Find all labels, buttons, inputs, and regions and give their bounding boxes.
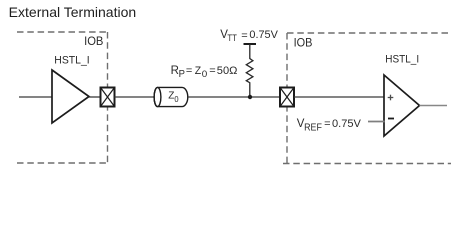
minus input marker	[388, 118, 394, 120]
wire: driver output to left pad	[89, 96, 101, 98]
svg-text:HSTL_I: HSTL_I	[54, 54, 89, 66]
IOB region left (dashed boundary)	[17, 32, 108, 163]
driver buffer (left triangle)	[52, 70, 89, 123]
wire: transmission line to right pad	[188, 96, 280, 98]
svg-text:IOB: IOB	[294, 35, 313, 49]
resistor RP	[246, 44, 253, 97]
svg-text:0.75V: 0.75V	[332, 118, 362, 130]
svg-text:=: =	[186, 65, 192, 77]
svg-text:IOB: IOB	[84, 34, 103, 48]
svg-text:50Ω: 50Ω	[217, 65, 238, 77]
svg-text:TT: TT	[227, 33, 237, 44]
svg-text:=: =	[209, 65, 215, 77]
svg-text:REF: REF	[304, 122, 322, 133]
wire: VREF stub to minus input	[368, 121, 385, 123]
wire: receiver output	[420, 105, 448, 107]
value label RP = Z0 = 50ohm	[171, 65, 238, 80]
svg-text:P: P	[179, 69, 186, 80]
value label Z0	[168, 90, 179, 104]
svg-text:=: =	[241, 30, 247, 42]
svg-text:HSTL_I: HSTL_I	[385, 53, 419, 65]
svg-text:0.75V: 0.75V	[249, 29, 278, 41]
wire: right pad to receiver + input	[294, 96, 384, 98]
plus input marker	[388, 95, 394, 101]
wire: left pad to transmission line	[115, 96, 155, 98]
pad (left IOB)	[101, 88, 115, 107]
svg-text:=: =	[324, 118, 330, 130]
receiver comparator (right triangle)	[384, 75, 420, 136]
svg-text:0: 0	[174, 94, 178, 104]
IOB region right (dashed boundary)	[283, 33, 451, 164]
svg-text:Z: Z	[195, 65, 202, 77]
svg-text:0: 0	[202, 69, 208, 80]
junction: termination tap	[248, 95, 252, 99]
value label VREF = 0.75V	[297, 118, 362, 133]
transmission line Z0 (cylinder)	[154, 87, 188, 106]
pad (right IOB)	[280, 88, 294, 107]
VTT terminal bar	[244, 43, 257, 45]
value label VTT = 0.75V	[220, 29, 278, 44]
svg-text:External Termination: External Termination	[9, 4, 137, 20]
wire: input to driver	[19, 96, 52, 98]
